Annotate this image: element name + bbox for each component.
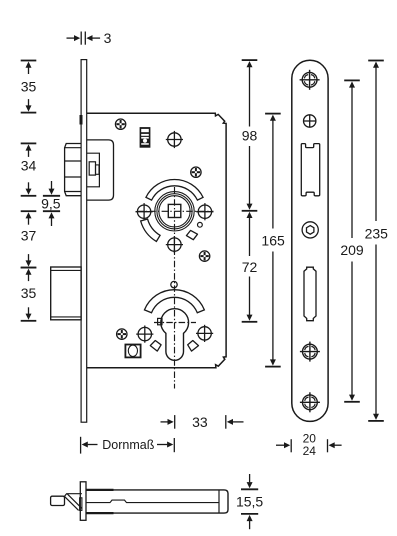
svg-text:Dornmaß: Dornmaß (102, 438, 154, 452)
dimension 9,5 (41, 181, 61, 226)
svg-text:35: 35 (21, 285, 37, 301)
dimension Dornmass (backset) (81, 437, 175, 454)
cylinder horizontal centerline (154, 322, 196, 324)
plate screw P3 (300, 342, 320, 362)
dimension 20 / 24 (plate widths) (276, 432, 342, 458)
dimension 235 (365, 61, 389, 421)
plate screw P1 (top) (300, 70, 320, 90)
hub top arc segment (146, 180, 203, 201)
dimension 35 (deadbolt) (21, 268, 37, 321)
crosshair mark M3 (right of hub) (196, 203, 213, 220)
centerlines (hub and cylinder axis) (137, 187, 214, 389)
crosshair mark M5 (left of cylinder) (136, 326, 153, 343)
svg-text:72: 72 (242, 259, 258, 275)
deadbolt slot in plate (304, 267, 316, 321)
dimension 34 (21, 143, 37, 195)
svg-text:35: 35 (21, 78, 37, 94)
dimension 33 (161, 414, 244, 430)
diamond stud left of cylinder (150, 341, 161, 352)
latch side view: bolt body (86, 490, 228, 513)
dimension 35 (top) (21, 61, 37, 113)
small square on cylinder axis (158, 318, 162, 324)
svg-text:3: 3 (104, 30, 112, 46)
euro profile cylinder hole (161, 309, 189, 361)
deadbolt (front view) (51, 267, 81, 320)
crosshair mark M6 (right of cylinder) (196, 325, 213, 342)
screw S3 (below hub right) (199, 251, 209, 261)
diamond stud near hub (186, 230, 197, 239)
dimension 37 (21, 211, 37, 267)
lock case outline (87, 113, 226, 368)
crosshair mark M1 (top hole) (166, 131, 183, 148)
follower hub with square spindle hole (155, 192, 194, 231)
svg-text:98: 98 (242, 127, 258, 143)
svg-text:33: 33 (192, 414, 208, 430)
faceplate edge view (forend, side) (81, 60, 87, 423)
svg-text:15,5: 15,5 (236, 494, 263, 510)
latch side view: forend flange (80, 482, 86, 521)
screw S1 (case top-left) (115, 119, 125, 129)
small pin circle near hub (198, 222, 203, 227)
latch side view: bevelled nose (51, 494, 82, 511)
pin mark on forend (80, 115, 83, 125)
diamond stud right of cylinder (188, 341, 199, 352)
dimension 98 (242, 60, 258, 322)
dimension 3 (forend thickness) (67, 30, 112, 46)
svg-text:37: 37 (21, 228, 37, 244)
crosshair mark M2 (left of hub) (136, 203, 153, 220)
svg-text:209: 209 (340, 242, 364, 258)
faceplate front view (stadium plate) (292, 60, 328, 421)
plus-slot screw P2 (304, 115, 316, 127)
crosshair mark M4 (below hub) (166, 236, 183, 253)
latch opening in plate (301, 144, 319, 196)
svg-text:235: 235 (365, 225, 389, 241)
oval window block (125, 345, 140, 358)
hex-socket hole in plate (302, 222, 318, 238)
svg-text:165: 165 (261, 232, 285, 248)
latch housing (inside case) (87, 140, 114, 200)
dimension 15,5 (latch height) (236, 474, 263, 529)
cylinder top arc segment (144, 290, 204, 313)
hub lower-left arc segment (141, 219, 160, 241)
svg-text:9,5: 9,5 (41, 195, 61, 211)
svg-text:24: 24 (303, 444, 317, 458)
small circle above cylinder arc (171, 281, 177, 287)
dimension 165 (261, 114, 285, 367)
dimension 209 (340, 80, 364, 401)
dimension 72 (242, 212, 258, 321)
striped detent block (140, 127, 151, 148)
screw S2 (above hub) (191, 167, 201, 177)
latch bolt head (front view) (65, 144, 82, 196)
screw S4 (left of cylinder) (117, 329, 127, 339)
plate screw P4 (300, 392, 320, 412)
svg-text:34: 34 (21, 157, 37, 173)
